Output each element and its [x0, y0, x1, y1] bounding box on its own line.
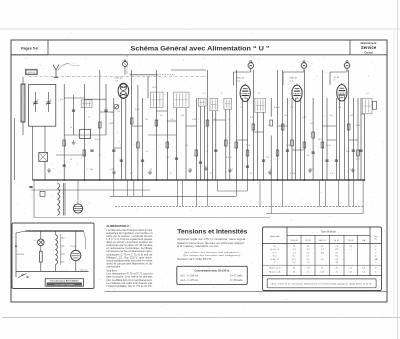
svg-text:en redresseuse monoplaque. Le: en redresseuse monoplaque. Le filtrage [106, 247, 153, 250]
svg-text:Vers Ch.: Vers Ch. [81, 268, 89, 271]
svg-text:15: 15 [210, 173, 212, 175]
svg-text:11,5: 11,5 [292, 259, 296, 261]
svg-text:Ht pour ca. U: Ht pour ca. U [269, 267, 281, 270]
svg-text:500: 500 [350, 115, 353, 117]
svg-text:Electrode: Electrode [270, 235, 280, 238]
svg-text:Gr 1: Gr 1 [273, 252, 277, 254]
svg-text:2 M: 2 M [290, 107, 294, 109]
svg-text:0,5 M: 0,5 M [274, 107, 280, 109]
svg-text:Les filaments des 5 lampes ain: Les filaments des 5 lampes ainsi qu’une [106, 229, 153, 232]
svg-text:0,2: 0,2 [366, 93, 369, 95]
svg-text:Les résistances R 70 et R 71 s: Les résistances R 70 et R 71 sont du [106, 273, 153, 276]
svg-text:0,2: 0,2 [203, 93, 206, 95]
svg-text:Gr 2: Gr 2 [273, 256, 277, 258]
svg-text:30: 30 [150, 169, 152, 171]
svg-text:Schéma Général avec Alimentati: Schéma Général avec Alimentation “ U ” [131, 45, 270, 52]
svg-text:Type de lampe: Type de lampe [321, 232, 337, 234]
svg-text:Appareil réglé sur 175 m, révi: Appareil réglé sur 175 m, révisions, san… [177, 238, 246, 241]
svg-text:(les valeurs des intensités so: (les valeurs des intensités sont soulign… [184, 254, 243, 257]
svg-text:P = 37 watts.: P = 37 watts. [230, 275, 243, 278]
svg-text:50: 50 [186, 145, 188, 147]
svg-text:100: 100 [310, 123, 313, 125]
svg-text:100: 100 [306, 155, 309, 157]
svg-text:25: 25 [268, 125, 270, 127]
svg-text:30: 30 [214, 119, 216, 121]
svg-text:UCH 42: UCH 42 [115, 78, 124, 80]
svg-text:tance additionnelle est mise e: tance additionnelle est mise en série [106, 259, 153, 262]
svg-text:50 pF: 50 pF [318, 139, 324, 141]
svg-text:-1,8: -1,8 [292, 249, 295, 251]
svg-text:Fg (1) + K: Fg (1) + K [270, 249, 279, 251]
svg-text:2 M: 2 M [117, 111, 121, 113]
svg-text:25: 25 [88, 117, 90, 119]
svg-text:38: 38 [336, 262, 338, 264]
svg-text:12,6: 12,6 [115, 80, 119, 82]
svg-text:UBC 41: UBC 41 [237, 78, 245, 80]
svg-text:Ht pour ca. A: Ht pour ca. A [269, 271, 281, 274]
svg-text:18: 18 [293, 246, 295, 248]
svg-text:5000: 5000 [109, 123, 113, 125]
svg-text:Tensions et Intensités: Tensions et Intensités [177, 229, 248, 236]
svg-text:Nota Bene :: Nota Bene : [106, 270, 118, 273]
svg-text:A 51 B: A 51 B [28, 71, 35, 74]
svg-text:Consommation avec S3 à 50 Hz: Consommation avec S3 à 50 Hz [195, 269, 231, 272]
svg-text:7,9: 7,9 [335, 246, 338, 248]
svg-text:4,7: 4,7 [307, 252, 310, 254]
svg-text:Transformateur BV 75.568.00: Transformateur BV 75.568.00 [50, 280, 79, 283]
svg-text:à la masse), intensités en mA.: à la masse), intensités en mA. [177, 245, 219, 248]
svg-text:30: 30 [70, 159, 72, 161]
svg-text:7,9: 7,9 [307, 268, 310, 270]
svg-text:5000: 5000 [246, 145, 250, 147]
svg-text:500: 500 [90, 169, 93, 171]
svg-text:2 M: 2 M [330, 173, 334, 175]
svg-text:110/220V: 110/220V [16, 254, 25, 256]
svg-text:500: 500 [181, 115, 184, 117]
svg-text:50: 50 [250, 173, 252, 175]
svg-text:8,2: 8,2 [293, 256, 296, 258]
svg-text:ALIMENTATION U :: ALIMENTATION U : [106, 224, 130, 228]
svg-text:50 pF: 50 pF [152, 87, 158, 89]
svg-text:type à couche. Leur valeur ne: type à couche. Leur valeur ne doit pas [106, 276, 153, 279]
svg-text:UY 42: UY 42 [348, 240, 354, 242]
svg-text:0,5 M: 0,5 M [95, 139, 101, 141]
svg-text:65: 65 [307, 246, 309, 248]
svg-text:Secteur 117 Volts 50 Hz.: Secteur 117 Volts 50 Hz. [177, 258, 212, 261]
svg-text:—: — [350, 249, 352, 251]
svg-text:UBC 41: UBC 41 [319, 240, 327, 242]
svg-text:5000: 5000 [310, 169, 314, 171]
svg-text:0,5 M: 0,5 M [290, 173, 296, 175]
svg-text:70: 70 [190, 169, 192, 171]
svg-text:12,6: 12,6 [290, 80, 294, 82]
svg-text:41: 41 [321, 246, 323, 248]
svg-text:la (A) + K: la (A) + K [271, 258, 280, 261]
svg-text:45: 45 [334, 80, 336, 82]
svg-text:85: 85 [336, 252, 338, 254]
svg-text:UL 41: UL 41 [334, 240, 340, 242]
svg-text:-3,8: -3,8 [306, 249, 309, 251]
svg-text:109: 109 [321, 252, 324, 254]
svg-text:UAF 42: UAF 42 [290, 77, 298, 80]
svg-text:1,9: 1,9 [307, 262, 310, 264]
svg-text:18: 18 [293, 272, 295, 274]
svg-text:Central: Central [364, 51, 373, 54]
svg-text:25: 25 [206, 151, 208, 153]
svg-text:1 M: 1 M [338, 107, 342, 109]
svg-text:1 M: 1 M [170, 119, 174, 121]
svg-text:12,6: 12,6 [320, 272, 324, 274]
svg-text:100: 100 [145, 119, 148, 121]
svg-text:1 M: 1 M [356, 159, 360, 161]
svg-text:0,5 M: 0,5 M [226, 157, 232, 159]
svg-text:dans ce circuit. La tension se: dans ce circuit. La tension secteur est [106, 241, 152, 244]
svg-text:UY 42: UY 42 [70, 246, 76, 248]
svg-text:du A : I = 275 mA.: du A : I = 275 mA. [181, 279, 199, 282]
svg-text:2,8: 2,8 [335, 259, 338, 261]
svg-text:50 pF: 50 pF [326, 145, 332, 147]
svg-text:31: 31 [350, 268, 352, 270]
svg-text:Pages 5-6: Pages 5-6 [21, 47, 38, 51]
svg-text:15: 15 [240, 107, 242, 109]
svg-text:(les valeurs des tensions sont: (les valeurs des tensions sont encadrées… [185, 251, 242, 254]
svg-text:Sur 220 V la tension filament: Sur 220 V la tension filament et l’inten… [271, 283, 373, 286]
svg-text:Service: Service [361, 45, 377, 50]
svg-text:-1,2: -1,2 [321, 249, 324, 251]
svg-text:est assuré par les condensateu: est assuré par les condensateurs élec- [106, 250, 152, 253]
svg-text:25: 25 [270, 169, 272, 171]
svg-text:redressée par la valve UY 42 m: redressée par la valve UY 42 montée [106, 244, 153, 247]
svg-text:filtrage L 21. Sur 220 V, une: filtrage L 21. Sur 220 V, une résis- [106, 256, 152, 259]
svg-text:Prise ant.: Prise ant. [71, 64, 81, 67]
svg-text:0,2: 0,2 [130, 173, 133, 175]
svg-text:12,6: 12,6 [237, 80, 241, 82]
svg-text:2 M: 2 M [266, 157, 270, 159]
svg-text:résistance de régulation sont: résistance de régulation sont montés en [106, 232, 153, 235]
svg-text:du U : I = 290 mA.: du U : I = 290 mA. [181, 275, 200, 278]
svg-text:19: 19 [293, 268, 295, 270]
svg-text:45: 45 [336, 268, 338, 270]
svg-text:avec contact thermique: avec contact thermique [55, 283, 75, 286]
svg-text:70: 70 [228, 119, 230, 121]
svg-text:tés: tés [374, 238, 377, 241]
svg-text:série sur le secteur. La lampe: série sur le secteur. La lampe témoin [106, 235, 153, 238]
svg-text:70: 70 [120, 145, 122, 147]
svg-text:Vol.: Vol. [111, 112, 115, 114]
svg-text:0,5: 0,5 [307, 259, 310, 261]
svg-text:6,7: 6,7 [307, 256, 310, 258]
svg-text:7,9: 7,9 [349, 246, 352, 248]
svg-text:50: 50 [70, 127, 72, 129]
svg-text:trolytiques C 70 et C 71 et la: trolytiques C 70 et C 71 et la self de [106, 253, 153, 256]
svg-text:UCH 42: UCH 42 [290, 240, 298, 242]
svg-text:l’intermédiaire de C 74 et R 7: l’intermédiaire de C 74 et R 74. [106, 285, 153, 288]
svg-text:15: 15 [146, 151, 148, 153]
svg-text:Le châssis est relié à la mass: Le châssis est relié à la masse par [106, 282, 152, 285]
svg-text:42: 42 [336, 272, 338, 274]
svg-text:6,5: 6,5 [362, 272, 365, 274]
svg-text:6,3: 6,3 [362, 268, 365, 270]
svg-text:118: 118 [335, 249, 338, 251]
svg-text:50: 50 [258, 93, 260, 95]
svg-text:redressement.: redressement. [106, 266, 121, 269]
svg-text:5000: 5000 [284, 115, 288, 117]
svg-text:P = 38 watts.: P = 38 watts. [230, 279, 243, 282]
svg-text:être modifiée lors d’un rempla: être modifiée lors d’un remplacement. [106, 279, 152, 282]
svg-text:avec le circuit des filaments: avec le circuit des filaments et du [106, 262, 153, 265]
svg-text:UF 41: UF 41 [305, 240, 311, 242]
svg-text:30: 30 [350, 272, 352, 274]
svg-text:L.5 (7 V. 0,3 A) est également: L.5 (7 V. 0,3 A) est également placée [106, 238, 153, 241]
svg-text:UL 41: UL 41 [334, 77, 341, 79]
